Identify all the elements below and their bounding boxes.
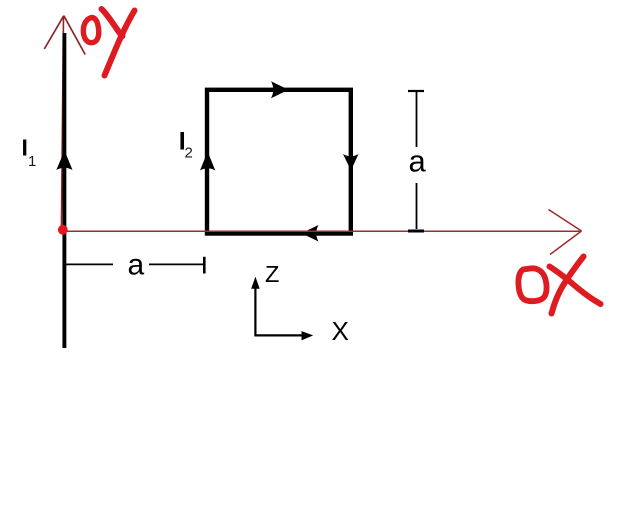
coordinate axes corner [254, 288, 302, 335]
dimension a (vertical, right of loop) [408, 91, 424, 231]
y-axis arrowhead [44, 16, 85, 55]
x-axis (local) arrowhead [302, 331, 314, 340]
handwritten label ox (red) [518, 257, 600, 314]
dimension a (horizontal, wire to loop) [65, 257, 204, 274]
loop current arrow bottom (left-pointing) [302, 225, 319, 242]
svg-text:Z: Z [265, 261, 279, 287]
loop current arrow top (right-pointing) [271, 81, 289, 98]
z-axis arrowhead [251, 277, 260, 289]
svg-text:a: a [128, 249, 145, 282]
current arrow I1 [56, 151, 72, 171]
x-axis overlay over loop bottom (red) [190, 230, 581, 232]
svg-text:2: 2 [185, 145, 193, 162]
y-axis (red) [61, 16, 63, 230]
x-axis (red) [63, 230, 581, 232]
square loop I2 [207, 90, 351, 234]
loop current arrow left (up-pointing) [200, 152, 215, 171]
wire I1 [62, 33, 66, 348]
origin node O [58, 225, 68, 235]
svg-text:1: 1 [28, 153, 36, 170]
handwritten label oy (red) [83, 9, 134, 76]
x-axis arrowhead [549, 210, 582, 255]
svg-text:a: a [409, 144, 427, 179]
loop current arrow right (down-pointing) [343, 154, 359, 171]
svg-text:X: X [332, 316, 349, 346]
svg-text:I: I [22, 135, 28, 161]
